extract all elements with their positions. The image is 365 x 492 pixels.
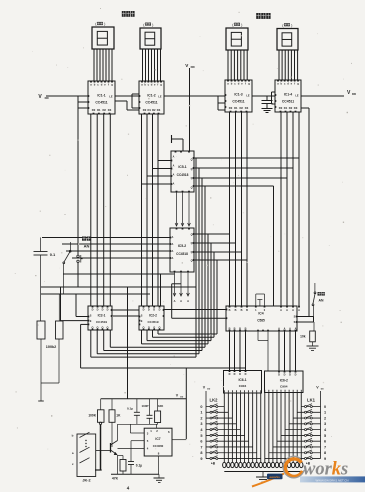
watermark eworks bbox=[252, 456, 365, 486]
svg-text:JK-2: JK-2 bbox=[82, 479, 90, 483]
wire R1 R2 bottoms bbox=[38, 339, 59, 401]
svg-text:2: 2 bbox=[200, 416, 202, 420]
svg-text:D2: D2 bbox=[152, 108, 156, 112]
wire IC2-1 to IC2-2 link bbox=[112, 310, 139, 316]
label figure number bbox=[127, 486, 130, 491]
ground right bbox=[307, 342, 319, 351]
svg-text:7: 7 bbox=[324, 445, 326, 449]
svg-text:IC2-1: IC2-1 bbox=[98, 314, 106, 318]
svg-text:B: B bbox=[246, 309, 248, 312]
svg-text:f: f bbox=[157, 83, 158, 87]
capacitor C1 0.1 bbox=[34, 238, 57, 322]
label hours display title bbox=[256, 13, 270, 19]
svg-text:100k2: 100k2 bbox=[46, 345, 57, 349]
svg-text:CC4060: CC4060 bbox=[153, 444, 164, 448]
svg-text:A: A bbox=[173, 165, 175, 168]
op IC2-2 selector CC4519 bbox=[139, 306, 165, 331]
svg-text:A: A bbox=[187, 299, 189, 303]
svg-text:LK2: LK2 bbox=[210, 398, 219, 403]
wire IC7 pin3 bbox=[130, 424, 144, 433]
wires DS3 segments bbox=[228, 50, 247, 80]
svg-text:D: D bbox=[234, 373, 236, 376]
svg-text:D: D bbox=[289, 373, 291, 376]
capacitor C2 with ground (IC3/IC4 gap) bbox=[262, 96, 273, 113]
resistor R3 10k bbox=[300, 322, 315, 342]
wire IC2-1 left pin E bbox=[61, 287, 89, 321]
svg-text:Q: Q bbox=[191, 260, 193, 263]
svg-text:LK1: LK1 bbox=[307, 398, 316, 403]
wire set bus upper bbox=[41, 286, 196, 288]
wire comparator left input 1 bbox=[161, 309, 227, 311]
net oscillator ground rail bbox=[111, 473, 159, 475]
svg-text:D: D bbox=[245, 373, 247, 376]
svg-text:D3: D3 bbox=[157, 108, 161, 112]
op IC1-4 decoder CC4511 bbox=[275, 80, 302, 113]
svg-text:6: 6 bbox=[324, 440, 326, 444]
svg-text:IC1-1: IC1-1 bbox=[97, 94, 105, 98]
wire IC2-1 left pin low bbox=[81, 323, 88, 325]
svg-text:IC1-3: IC1-3 bbox=[234, 93, 242, 97]
svg-text:A: A bbox=[180, 299, 182, 303]
svg-text:1: 1 bbox=[324, 411, 326, 415]
svg-text:CC4511: CC4511 bbox=[282, 100, 294, 104]
wire comparator bottom loop bbox=[258, 331, 268, 371]
display DS1 (minutes tens) bbox=[92, 22, 114, 49]
svg-text:D2: D2 bbox=[239, 106, 243, 110]
op IC7 CC4060 bbox=[144, 428, 172, 456]
svg-text:D: D bbox=[284, 373, 286, 376]
svg-text:CC4518: CC4518 bbox=[177, 173, 189, 177]
display DS3 (hours tens) bbox=[226, 23, 248, 50]
svg-text:A: A bbox=[286, 309, 288, 312]
svg-text:5: 5 bbox=[324, 434, 326, 438]
op IC6-2 driver C904 bbox=[265, 371, 304, 393]
wire comparator cascade loop top bbox=[256, 294, 265, 306]
svg-text:5: 5 bbox=[200, 434, 202, 438]
wire IC1-4 right pin to bus bbox=[301, 108, 309, 317]
resistor R7 47K bbox=[112, 460, 126, 481]
svg-text:D0: D0 bbox=[92, 108, 96, 112]
svg-text:WWW.EWORKS.NET.CN: WWW.EWORKS.NET.CN bbox=[316, 478, 349, 482]
switch AN1 blade bbox=[63, 242, 71, 294]
net VDD rail bbox=[38, 90, 356, 100]
switch block JK-2 bbox=[72, 432, 111, 482]
bus IC1-4 BCD inputs bbox=[281, 112, 299, 306]
wire comparator A outputs to IC6-1 bbox=[230, 331, 246, 371]
wire IC1-1/IC1-2 gap bracket bbox=[115, 101, 139, 110]
wire set bus lower bbox=[41, 293, 150, 295]
svg-text:1K: 1K bbox=[116, 414, 121, 418]
switch bank LK1 bbox=[265, 386, 327, 466]
svg-text:Q: Q bbox=[191, 186, 193, 189]
resistor R5 1K bbox=[109, 399, 121, 447]
svg-text:A: A bbox=[174, 299, 176, 303]
svg-text:D: D bbox=[107, 308, 109, 311]
wire IC5-2 Q staircase bbox=[194, 234, 247, 260]
net oscillator VDD rail bbox=[101, 394, 187, 399]
op IC2-1 selector CC4519 bbox=[88, 306, 113, 331]
wire IC5-1 clock bracket bbox=[172, 135, 184, 151]
svg-text:C904: C904 bbox=[239, 384, 247, 388]
svg-text:9: 9 bbox=[200, 457, 202, 461]
svg-text:D: D bbox=[295, 373, 297, 376]
wire IC1-4 left bracket bbox=[272, 92, 276, 104]
label AN2 bbox=[318, 292, 325, 303]
svg-text:D: D bbox=[97, 308, 99, 311]
svg-text:DD: DD bbox=[191, 65, 195, 69]
svg-text:A: A bbox=[173, 174, 175, 177]
wire IC5-1 Q fan right bbox=[194, 158, 299, 306]
label 100k x2 bbox=[46, 345, 57, 349]
svg-text:IC2-2: IC2-2 bbox=[149, 314, 157, 318]
svg-text:D0: D0 bbox=[229, 106, 233, 110]
bus IC1-1 BCD inputs bbox=[91, 114, 111, 306]
op IC5-2 counter CC4518 bbox=[170, 228, 195, 273]
svg-text:CC4519: CC4519 bbox=[147, 320, 158, 324]
svg-text:0.1μ: 0.1μ bbox=[136, 464, 142, 468]
wire comparator S outputs bbox=[297, 317, 314, 323]
display DS2 (minutes units) bbox=[140, 23, 161, 50]
svg-text:A: A bbox=[298, 309, 300, 312]
wire comparator B outputs to IC6-2 bbox=[279, 331, 296, 371]
svg-text:Q: Q bbox=[191, 234, 193, 237]
bus IC6-2 outputs bbox=[265, 393, 301, 463]
svg-text:A: A bbox=[172, 236, 174, 239]
bus IC5-1 Q down bbox=[196, 158, 205, 357]
svg-text:Q: Q bbox=[191, 251, 193, 254]
ground center bbox=[256, 472, 270, 483]
svg-text:3: 3 bbox=[324, 422, 326, 426]
op IC6-1 driver C904 bbox=[224, 370, 262, 393]
svg-text:B: B bbox=[241, 309, 243, 312]
svg-text:IC6-2: IC6-2 bbox=[280, 379, 288, 383]
wires DS1 segments bbox=[94, 49, 112, 81]
svg-text:6: 6 bbox=[200, 440, 202, 444]
svg-text:C904: C904 bbox=[280, 385, 288, 389]
bus IC1-2 BCD inputs bbox=[142, 114, 159, 306]
wire IC2-1 left pin S bbox=[76, 294, 88, 317]
wires DS4 segments bbox=[279, 50, 298, 80]
wire emitter branch bbox=[118, 456, 124, 460]
svg-text:D: D bbox=[159, 308, 161, 311]
svg-text:A: A bbox=[173, 183, 175, 186]
svg-text:0: 0 bbox=[324, 405, 326, 409]
svg-text:A: A bbox=[173, 156, 175, 159]
svg-text:A: A bbox=[280, 309, 282, 312]
wire contacts common bbox=[224, 471, 301, 473]
svg-text:3: 3 bbox=[200, 422, 202, 426]
svg-text:LE: LE bbox=[295, 94, 299, 98]
svg-text:IC7: IC7 bbox=[155, 437, 160, 441]
svg-text:Q: Q bbox=[191, 168, 193, 171]
wire comparator left input 2 bbox=[172, 317, 226, 319]
svg-text:AN: AN bbox=[319, 299, 324, 303]
bus IC1-3 BCD inputs bbox=[230, 112, 248, 306]
wire IC1-3 left bracket bbox=[218, 96, 225, 110]
svg-text:Q: Q bbox=[191, 177, 193, 180]
svg-text:D1: D1 bbox=[97, 108, 101, 112]
op IC1-2 decoder CC4511 bbox=[139, 81, 165, 115]
svg-text:Q: Q bbox=[191, 242, 193, 245]
wire IC5-1 to IC5-2 carry bbox=[175, 192, 190, 226]
resistor R2 100k bbox=[56, 294, 64, 339]
svg-text:DD: DD bbox=[352, 92, 356, 96]
wire IC5-2 left inputs bbox=[42, 238, 170, 259]
svg-text:D: D bbox=[92, 308, 94, 311]
svg-text:IC1-2: IC1-2 bbox=[147, 94, 155, 98]
bus IC5-2 Q down bbox=[208, 234, 217, 344]
wire caps node bbox=[118, 423, 158, 425]
svg-text:LE: LE bbox=[246, 94, 250, 98]
svg-text:LE: LE bbox=[158, 95, 162, 99]
svg-text:CC4518: CC4518 bbox=[176, 252, 188, 256]
svg-text:CC4511: CC4511 bbox=[145, 101, 157, 105]
svg-text:D: D bbox=[148, 308, 150, 311]
pushbutton AN (time set) bbox=[77, 96, 83, 287]
svg-text:B: B bbox=[235, 309, 237, 312]
wire IC1-1 LT/BI bracket bbox=[78, 96, 88, 238]
svg-text:CC4511: CC4511 bbox=[232, 100, 244, 104]
svg-text:43K: 43K bbox=[158, 404, 164, 408]
resistor R4 100K bbox=[88, 399, 104, 423]
op IC1-1 decoder CC4511 bbox=[88, 81, 116, 115]
svg-text:B: B bbox=[229, 309, 231, 312]
svg-text:2: 2 bbox=[324, 416, 326, 420]
svg-text:f: f bbox=[108, 83, 109, 87]
ground oscillator bbox=[154, 474, 165, 482]
svg-text:0: 0 bbox=[200, 405, 202, 409]
svg-text:1: 1 bbox=[200, 411, 202, 415]
switch bank LK2 bbox=[200, 386, 260, 466]
wire alarm loop big bracket bbox=[81, 287, 246, 439]
svg-text:D1: D1 bbox=[147, 108, 151, 112]
op IC1-3 decoder CC4511 bbox=[225, 80, 253, 113]
svg-text:IC6-1: IC6-1 bbox=[238, 378, 246, 382]
wire IC2-2 outputs bracket bbox=[142, 330, 218, 344]
svg-text:AN: AN bbox=[84, 244, 90, 249]
svg-text:eworks: eworks bbox=[270, 475, 281, 479]
svg-text:D3: D3 bbox=[108, 108, 112, 112]
svg-text:b: b bbox=[72, 434, 74, 438]
capacitor C4 100P bbox=[141, 399, 152, 425]
svg-text:DD: DD bbox=[45, 96, 49, 100]
wire IC7 pin6 out bbox=[172, 439, 186, 441]
wire IC5-2 bottom bracket B bbox=[172, 284, 181, 318]
svg-text:A: A bbox=[172, 250, 174, 253]
svg-text:100P: 100P bbox=[141, 404, 148, 408]
svg-text:D: D bbox=[143, 308, 145, 311]
display DS4 (hours units) bbox=[277, 23, 298, 50]
wire IC7 pin2 bbox=[156, 424, 158, 428]
svg-text:f: f bbox=[245, 82, 246, 86]
svg-text:+B: +B bbox=[211, 462, 216, 466]
svg-text:0.1: 0.1 bbox=[50, 252, 56, 257]
svg-text:D3: D3 bbox=[294, 106, 298, 110]
capacitor C3 0.1u bbox=[127, 399, 140, 425]
svg-text:f: f bbox=[294, 82, 295, 86]
svg-text:D: D bbox=[239, 373, 241, 376]
svg-text:8: 8 bbox=[324, 451, 326, 455]
svg-text:D1: D1 bbox=[284, 106, 288, 110]
svg-text:D2: D2 bbox=[289, 106, 293, 110]
svg-text:IC1-4: IC1-4 bbox=[284, 93, 292, 97]
wire IC2-1 outputs bracket bbox=[91, 330, 205, 357]
op IC4 comparator C585 bbox=[226, 306, 301, 332]
svg-text:D0: D0 bbox=[279, 106, 283, 110]
wire IC5-2 bottom bracket A bbox=[63, 274, 175, 310]
svg-text:IC4: IC4 bbox=[258, 312, 263, 316]
svg-text:47K: 47K bbox=[112, 477, 119, 481]
svg-text:Q: Q bbox=[191, 159, 193, 162]
svg-text:D2: D2 bbox=[102, 108, 106, 112]
svg-text:7: 7 bbox=[200, 445, 202, 449]
svg-text:0.1μ: 0.1μ bbox=[127, 407, 133, 411]
svg-text:D: D bbox=[229, 373, 231, 376]
svg-text:CC4519: CC4519 bbox=[96, 320, 107, 324]
svg-text:10k: 10k bbox=[300, 335, 306, 339]
wire IC1-2 left bracket bbox=[132, 94, 139, 108]
wire IC7 pin4 bbox=[118, 447, 145, 449]
wire IC7 pin8 bbox=[158, 456, 160, 474]
svg-text:A: A bbox=[172, 257, 174, 260]
svg-text:IC5-1: IC5-1 bbox=[178, 165, 186, 169]
svg-text:D3: D3 bbox=[245, 106, 249, 110]
switch AN2 (alarm set) bbox=[312, 283, 316, 317]
wires DS2 segments bbox=[143, 49, 161, 81]
wire IC7 pin5 bbox=[131, 441, 144, 462]
svg-text:D0: D0 bbox=[143, 108, 147, 112]
svg-text:IC5-2: IC5-2 bbox=[178, 244, 186, 248]
svg-text:D: D bbox=[278, 373, 280, 376]
capacitor C5 0.1u bbox=[128, 462, 142, 475]
wire IC5-2 outputs down arrows bbox=[173, 272, 189, 303]
svg-text:CC4511: CC4511 bbox=[95, 101, 107, 105]
resistor R6 43K bbox=[155, 399, 164, 425]
svg-text:D1: D1 bbox=[234, 106, 238, 110]
svg-text:LE: LE bbox=[109, 95, 113, 99]
svg-text:100K: 100K bbox=[88, 414, 96, 418]
svg-text:C585: C585 bbox=[257, 319, 265, 323]
resistor R1 100k bbox=[37, 321, 45, 339]
node circle bbox=[95, 422, 102, 470]
svg-text:8: 8 bbox=[200, 451, 202, 455]
transistor Q1 bbox=[111, 424, 118, 474]
net VDD mid bbox=[185, 63, 194, 151]
svg-text:A: A bbox=[292, 309, 294, 312]
svg-text:D: D bbox=[102, 308, 104, 311]
svg-text:A: A bbox=[172, 243, 174, 246]
label minutes display title bbox=[122, 11, 135, 17]
label AN pushbutton bbox=[82, 237, 91, 249]
op IC5-1 counter CC4518 bbox=[171, 151, 195, 193]
contact pads row bbox=[223, 462, 303, 467]
svg-text:D: D bbox=[153, 308, 155, 311]
bus IC6-1 outputs bbox=[224, 393, 260, 462]
wire IC5-1 left staircase bbox=[142, 161, 172, 185]
